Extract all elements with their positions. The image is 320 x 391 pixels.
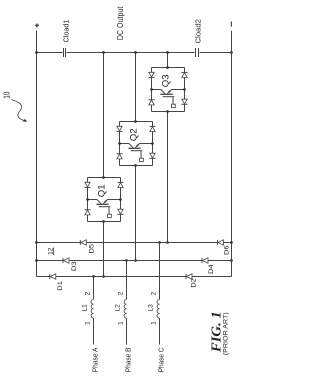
inductor L2 <box>114 300 126 319</box>
diode D2 <box>186 274 198 288</box>
Q1 collector bus segment <box>86 198 97 201</box>
Q3 upper-left bridge diode <box>149 68 155 90</box>
svg-text:10: 10 <box>3 91 12 99</box>
wire: phase feed below inductor L2 <box>126 318 128 344</box>
pin label 1 of L1 <box>84 321 91 325</box>
Q1 lower-right bridge diode <box>118 200 124 222</box>
Q1 emitter bus segment <box>108 198 122 201</box>
label Phase C <box>157 348 166 373</box>
label: DC Output net <box>116 6 125 40</box>
label Phase B <box>124 347 133 372</box>
IGBT bridge cell Q3 <box>149 66 188 113</box>
svg-text:L3: L3 <box>147 304 154 312</box>
wire: Q3 bottom connector to phase C node <box>166 112 169 244</box>
diode D6 <box>217 240 230 255</box>
Q2 lower-right bridge diode <box>150 144 156 166</box>
caption (PRIOR ART) <box>222 312 229 355</box>
Q3 top edge wire <box>152 66 185 69</box>
pin label 1 of L2 <box>117 321 124 325</box>
Q1 bottom edge wire <box>88 220 121 223</box>
diode D4 <box>202 258 215 274</box>
Q1 upper-left bridge diode <box>85 178 91 200</box>
svg-text:2: 2 <box>117 291 124 295</box>
svg-text:Phase C: Phase C <box>157 348 166 373</box>
inductor L3 <box>147 300 159 319</box>
Q1 top edge wire <box>88 176 121 179</box>
wire: phase A node line <box>37 275 232 278</box>
wire: phase B node line <box>35 259 233 262</box>
Q2 upper-left bridge diode <box>117 122 123 144</box>
pin label 2 of L1 <box>84 291 91 295</box>
Q2 lower-left bridge diode <box>117 144 123 166</box>
svg-text:Phase A: Phase A <box>91 347 100 372</box>
IGBT transistor Q2 <box>128 144 142 151</box>
diode D5 <box>80 240 95 254</box>
capacitor Cload1 <box>62 19 71 57</box>
pin label 1 of L3 <box>150 321 157 325</box>
caption FIG. 1 <box>209 311 224 353</box>
svg-text:1: 1 <box>150 321 157 325</box>
wire: Q1 bottom connector to phase A node <box>102 222 105 278</box>
IGBT bridge cell Q1 <box>85 176 124 223</box>
svg-text:(PRIOR ART): (PRIOR ART) <box>222 312 229 355</box>
Q2 bottom edge wire <box>120 164 153 167</box>
svg-text:L1: L1 <box>81 304 88 312</box>
svg-text:Q2: Q2 <box>128 128 138 141</box>
svg-text:D3: D3 <box>71 261 78 271</box>
svg-text:Q1: Q1 <box>96 184 106 197</box>
Q2 emitter bus segment <box>140 142 154 145</box>
Q3 bottom edge wire <box>152 110 185 113</box>
Q3 collector bus segment <box>150 88 161 91</box>
svg-text:1: 1 <box>117 321 124 325</box>
wire: phase feed above inductor L1 <box>93 277 95 300</box>
wire: Q1 top connector to midpoint bus <box>102 51 105 177</box>
IGBT transistor Q3 <box>160 90 174 97</box>
wire: phase feed above inductor L3 <box>159 243 161 300</box>
svg-text:1: 1 <box>84 321 91 325</box>
wire: Q2 top connector to midpoint bus <box>134 51 137 121</box>
Q2 top edge wire <box>120 120 153 123</box>
IGBT transistor Q1 <box>96 200 110 207</box>
svg-text:Cload1: Cload1 <box>62 19 71 42</box>
diode D3 <box>63 258 78 271</box>
Q3 emitter bus segment <box>172 88 186 91</box>
svg-text:D5: D5 <box>89 243 96 253</box>
svg-text:D4: D4 <box>208 264 215 274</box>
Q1 gate lead and terminal square <box>108 207 112 218</box>
wire: phase C node line <box>35 241 233 244</box>
svg-text:Q3: Q3 <box>160 74 170 87</box>
wire: Q2 bottom connector to phase B node <box>134 166 137 262</box>
Q2 collector bus segment <box>118 142 129 145</box>
capacitor Cload2 <box>193 19 202 57</box>
svg-text:FIG. 1: FIG. 1 <box>209 311 224 353</box>
svg-text:D2: D2 <box>191 278 198 288</box>
plus polarity mark on positive rail <box>35 24 39 28</box>
Q3 lower-right bridge diode <box>182 90 188 112</box>
svg-text:D6: D6 <box>223 245 230 255</box>
minus polarity mark on negative rail <box>230 22 232 27</box>
Q2 upper-right bridge diode <box>150 122 156 144</box>
svg-text:DC Output: DC Output <box>116 6 125 40</box>
IGBT bridge cell Q2 <box>117 120 156 167</box>
Q3 gate lead and terminal square <box>172 97 176 108</box>
diode D1 <box>50 274 64 291</box>
bus reference numeral 12 (underlined) <box>47 247 54 255</box>
Q2 gate lead and terminal square <box>140 151 144 162</box>
svg-text:L2: L2 <box>114 304 121 312</box>
wire: positive DC rail (left vertical) <box>36 31 38 277</box>
Q3 upper-right bridge diode <box>182 68 188 90</box>
svg-text:Cload2: Cload2 <box>193 19 202 43</box>
wire: DC output / capacitor bank bus (top horizontal) <box>35 51 233 54</box>
svg-text:2: 2 <box>84 291 91 295</box>
Q1 lower-left bridge diode <box>85 200 91 222</box>
label Q2 <box>128 128 138 141</box>
wire: phase feed below inductor L3 <box>159 318 161 344</box>
svg-text:Phase B: Phase B <box>124 347 133 372</box>
pin label 2 of L2 <box>117 291 124 295</box>
pin label 2 of L3 <box>150 291 157 295</box>
wire: negative DC rail (right vertical) <box>231 31 233 277</box>
label Q3 <box>160 74 170 87</box>
svg-text:2: 2 <box>150 291 157 295</box>
wire: phase feed below inductor L1 <box>93 318 95 344</box>
figure reference numeral 10 with leader arrow <box>3 91 28 121</box>
svg-text:D1: D1 <box>57 280 64 290</box>
wire: phase feed above inductor L2 <box>126 261 128 300</box>
inductor L1 <box>81 300 93 319</box>
Q3 lower-left bridge diode <box>149 90 155 112</box>
wire: Q3 top connector to midpoint bus <box>166 51 169 67</box>
label Q1 <box>96 184 106 197</box>
label Phase A <box>91 347 100 372</box>
Q1 upper-right bridge diode <box>118 178 124 200</box>
